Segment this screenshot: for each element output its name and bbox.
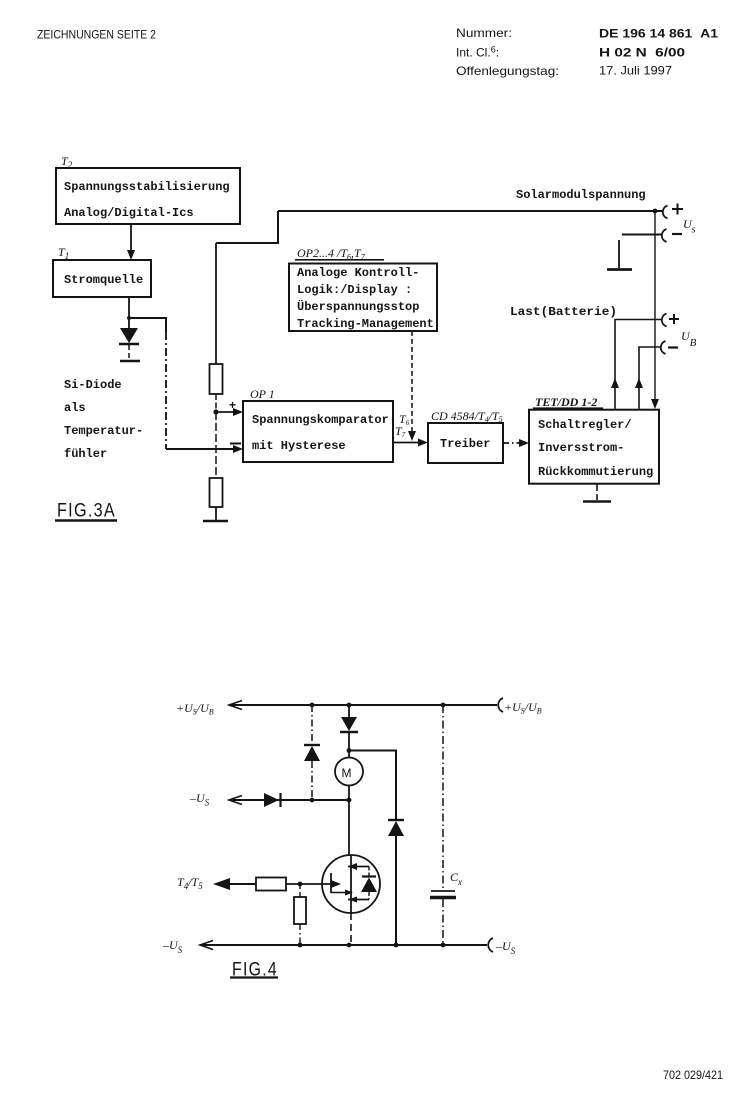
block T2 Spannungsstabilisierung [56, 168, 240, 224]
svg-text:Us: Us [683, 217, 696, 236]
svg-text:T4/T5: T4/T5 [177, 875, 203, 891]
svg-text:Überspannungsstop: Überspannungsstop [297, 298, 419, 314]
wire main vertical Us plus down to Schaltregler [651, 211, 659, 409]
svg-text:+US/UB: +US/UB [176, 701, 214, 717]
label FIG.3A [55, 501, 117, 522]
node plus input junction [213, 409, 218, 414]
svg-text:fühler: fühler [64, 447, 107, 461]
svg-text:Stromquelle: Stromquelle [64, 273, 143, 287]
ground below R2 [203, 520, 228, 523]
node diode junction [127, 316, 131, 320]
resistor R4 gate pulldown [294, 884, 306, 945]
wire T1 down to node [128, 297, 130, 319]
terminal Us minus [662, 229, 682, 242]
svg-text:Spannungsstabilisierung: Spannungsstabilisierung [64, 180, 230, 194]
wire -Us line [229, 796, 351, 805]
svg-text:ZEICHNUNGEN SEITE 2: ZEICHNUNGEN SEITE 2 [37, 28, 156, 42]
svg-text:Int. Cl.6:: Int. Cl.6: [456, 45, 499, 60]
svg-text:Logik:/Display :: Logik:/Display : [297, 283, 412, 297]
block OP1 Spannungskomparator [243, 401, 393, 462]
svg-text:H 02 N 6/00: H 02 N 6/00 [599, 46, 685, 60]
wire arrow T2 to T1 [127, 224, 135, 260]
terminal FIG4 bottom right [488, 938, 515, 956]
svg-text:Temperatur-: Temperatur- [64, 424, 143, 438]
resistor R1 [210, 243, 223, 412]
svg-text:+US/UB: +US/UB [504, 700, 542, 716]
label minus sign [230, 443, 241, 445]
svg-text:M: M [342, 766, 352, 780]
svg-text:Spannungskomparator: Spannungskomparator [252, 413, 389, 427]
wire left dash-dot branch [311, 705, 313, 744]
node solar line junction [653, 209, 658, 214]
svg-text:Analoge Kontroll-: Analoge Kontroll- [297, 266, 419, 280]
svg-text:Nummer:: Nummer: [456, 26, 512, 40]
svg-text:Si-Diode: Si-Diode [64, 378, 122, 392]
wire branch to right vertical [349, 751, 396, 820]
wire gate lead with left arrow [213, 878, 256, 890]
diode D5 on -Us line pointing right [264, 793, 281, 807]
capacitor Cx [430, 705, 456, 945]
terminal UB plus [662, 314, 679, 327]
ground below Si-Diode [120, 360, 140, 362]
svg-text:CD 4584/T4/T5: CD 4584/T4/T5 [431, 409, 503, 424]
svg-text:Treiber: Treiber [440, 437, 490, 451]
svg-text:Rückkommutierung: Rückkommutierung [538, 465, 653, 479]
svg-text:702 029/421: 702 029/421 [663, 1068, 723, 1082]
motor M1 [335, 751, 363, 856]
wire solar line Solarmodulspannung [278, 210, 662, 212]
svg-text:–US: –US [189, 791, 210, 808]
wire Us minus line [622, 234, 662, 236]
wire Treiber to Schaltregler [503, 439, 529, 447]
svg-text:Solarmodulspannung: Solarmodulspannung [516, 188, 646, 202]
wire branch to comparator minus input [129, 318, 243, 453]
svg-text:T2: T2 [61, 154, 73, 170]
svg-text:mit Hysterese: mit Hysterese [252, 439, 346, 453]
diode D3 right vertical pointing up [388, 820, 404, 945]
text Si-Diode als Temperaturfuehler [64, 378, 143, 461]
block OP2-4 Analoge Kontroll-Logik [289, 264, 437, 332]
svg-text:Cx: Cx [450, 870, 462, 887]
terminal Us plus [663, 204, 683, 219]
svg-text:Tracking-Management: Tracking-Management [297, 317, 434, 331]
diode D4 left branch pointing up [304, 745, 320, 800]
wire dashed from control logic down [408, 331, 416, 441]
label OP2...4 / T6,T7 [295, 246, 384, 262]
svg-text:T1: T1 [58, 245, 69, 261]
svg-text:UB: UB [681, 329, 697, 349]
svg-text:Schaltregler/: Schaltregler/ [538, 418, 632, 432]
svg-text:Last(Batterie): Last(Batterie) [510, 305, 617, 319]
terminal UB minus [661, 341, 678, 354]
node gate resistor junction [298, 882, 303, 887]
svg-text:+: + [229, 398, 236, 412]
svg-text:als: als [64, 401, 86, 415]
block Treiber [428, 423, 503, 463]
block Schaltregler Inversstrom-Rueckkommutierung [529, 410, 659, 484]
svg-text:–US: –US [495, 939, 516, 956]
wire FIG4 bottom rail [200, 941, 487, 950]
svg-text:Inversstrom-: Inversstrom- [538, 441, 624, 455]
wire UB plus with up arrow [611, 320, 661, 410]
diode D1 Si-Diode [119, 318, 139, 359]
diode D2 top center pointing down [340, 705, 358, 751]
resistor R3 gate series [256, 878, 341, 891]
svg-text:DE 196 14 861 A1: DE 196 14 861 A1 [599, 27, 718, 41]
svg-text:FIG.3A: FIG.3A [57, 501, 116, 522]
transistor Q1 MOSFET [322, 855, 380, 945]
svg-text:Analog/Digital-Ics: Analog/Digital-Ics [64, 206, 194, 220]
block T1 Stromquelle [53, 260, 151, 297]
wire FIG4 top rail [229, 701, 497, 710]
svg-text:–US: –US [162, 938, 183, 955]
svg-text:TET/DD 1-2: TET/DD 1-2 [535, 395, 597, 409]
wire UB minus with up arrow [635, 347, 660, 410]
svg-text:Offenlegungstag:: Offenlegungstag: [456, 64, 559, 78]
terminal FIG4 top right [498, 698, 542, 716]
node motor branch [347, 748, 352, 753]
ground at Us minus [607, 240, 632, 270]
svg-text:T7: T7 [395, 424, 406, 439]
label FIG.4 [230, 960, 278, 981]
svg-text:17. Juli 1997: 17. Juli 1997 [599, 64, 672, 78]
label TET/DD 1-2 [533, 395, 603, 409]
wire plus input [216, 408, 243, 416]
svg-text:OP 1: OP 1 [250, 387, 275, 401]
resistor R2 [210, 412, 223, 520]
wire comparator to Treiber [393, 439, 428, 447]
ground below Schaltregler [583, 484, 611, 502]
wire solar rail left step [216, 211, 278, 243]
